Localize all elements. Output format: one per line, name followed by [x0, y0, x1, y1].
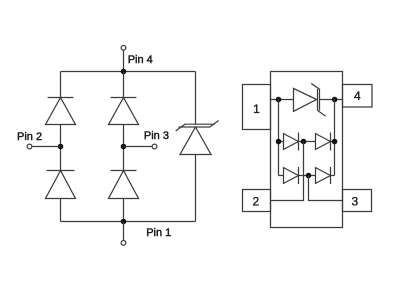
svg-text:Pin 1: Pin 1: [146, 227, 171, 239]
wire: bottom rail to Pin 1 terminal: [123, 222, 125, 241]
junction: row 2 middle node: [301, 139, 307, 145]
svg-text:3: 3: [351, 194, 358, 208]
wire: row 2 middle node down and left to pin 2 pad: [271, 142, 304, 201]
wire: Pin 2 terminal to left branch: [32, 146, 61, 148]
diode D8 (package, row 3 left): [284, 167, 299, 184]
pin 3 pad: [343, 190, 372, 212]
wire: D3 anode to D4 cathode: [123, 125, 125, 171]
wire: top rail to D1 cathode: [60, 72, 62, 98]
wire: pin 1 pad to zener anode (row 1 left): [271, 99, 294, 101]
wire: row 2 left segment: [279, 141, 284, 143]
wire: top rail to TVS cathode: [195, 72, 197, 125]
junction: node Pin 2: [58, 144, 64, 150]
diode D4 (middle branch, lower): [109, 171, 139, 199]
wire: row 3 middle node down and right to pin 3 pad: [309, 176, 343, 201]
wire: TVS anode to bottom rail: [195, 155, 197, 222]
pin 4 pad: [343, 85, 373, 108]
wire: middle branch to Pin 3 terminal: [124, 146, 153, 148]
wire: top rail to D3 cathode: [123, 72, 125, 98]
svg-text:Pin 4: Pin 4: [128, 54, 153, 66]
junction: top rail / middle branch: [121, 69, 127, 75]
junction: bottom rail / middle branch: [121, 219, 127, 225]
svg-text:2: 2: [253, 194, 260, 208]
junction: row 2 right: [332, 139, 338, 145]
junction: node Pin 3: [121, 144, 127, 150]
zener diode D5 (package, top row): [294, 83, 326, 116]
pin 2 pad: [243, 190, 271, 212]
wire: row 2 middle segment: [299, 141, 316, 143]
wire: top rail: [61, 71, 196, 73]
svg-text:4: 4: [354, 89, 361, 103]
wire: Pin 4 terminal to top rail: [123, 50, 125, 71]
svg-text:Pin 2: Pin 2: [17, 131, 42, 143]
wire: zener cathode to pin 4 pad (row 1 right): [320, 99, 343, 101]
diode D2 (left branch, lower): [46, 171, 76, 199]
diode D6 (package, row 2 left): [284, 133, 299, 151]
wire: right inner rail: [334, 100, 336, 176]
wire: row 3 right segment: [331, 175, 335, 177]
diode D7 (package, row 2 right): [316, 133, 331, 151]
pin 1 pad: [243, 85, 271, 130]
terminal Pin 1: [121, 241, 126, 246]
svg-text:1: 1: [253, 102, 260, 116]
terminal Pin 4: [121, 45, 126, 50]
wire: left inner rail: [278, 100, 280, 176]
package body outline: [271, 72, 343, 228]
terminal Pin 2: [27, 144, 32, 149]
terminal Pin 3: [152, 144, 157, 149]
wire: row 3 left segment: [279, 175, 284, 177]
junction: row 2 left: [276, 139, 282, 145]
diode D1 (left branch, upper): [46, 98, 76, 125]
wire: row 3 middle segment: [299, 175, 316, 177]
wire: D2 anode to bottom rail: [60, 199, 62, 222]
junction: row 1 left rail: [276, 97, 282, 103]
wire: D1 anode to D2 cathode: [60, 125, 62, 171]
TVS diode Z1 (right branch): [176, 121, 219, 155]
wire: bottom rail: [61, 221, 196, 223]
junction: row 1 right rail: [332, 97, 338, 103]
diode D3 (middle branch, upper): [109, 98, 139, 125]
wire: D4 anode to bottom rail: [123, 199, 125, 222]
diode D9 (package, row 3 right): [316, 167, 331, 184]
svg-text:Pin 3: Pin 3: [144, 130, 169, 142]
junction: row 3 middle node: [306, 173, 312, 179]
wire: row 2 right segment: [331, 141, 335, 143]
